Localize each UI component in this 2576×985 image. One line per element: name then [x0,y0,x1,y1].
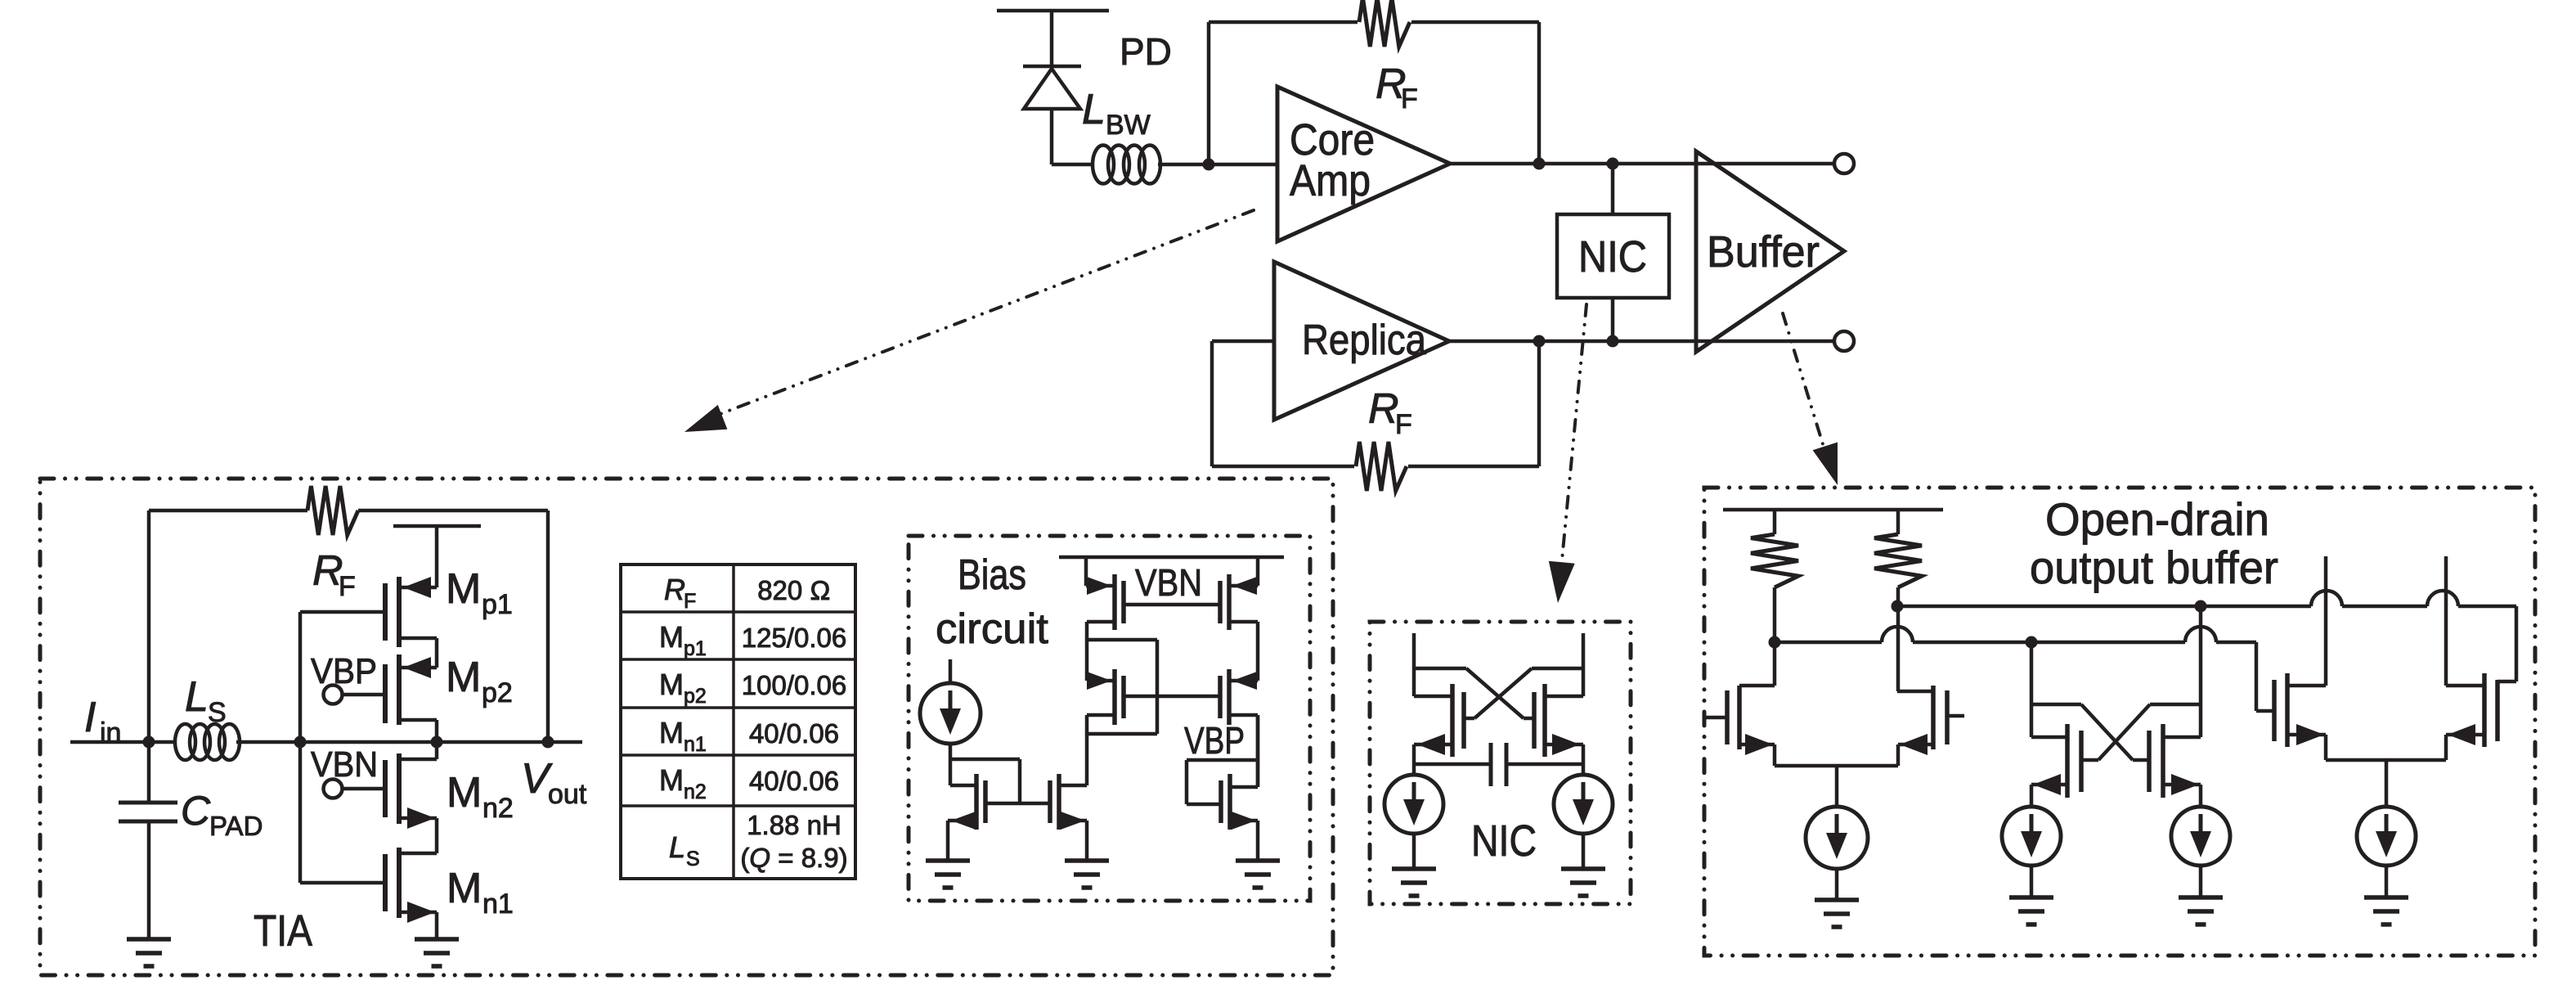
wire bias diode link vertical [1018,759,1022,803]
wire buffer bus2 segment b [1913,641,2016,645]
ground bias M6 [1236,858,1280,863]
svg-text:output buffer: output buffer [2030,542,2278,593]
NIC cross top left [1414,667,1466,671]
wire core amp output [1450,162,1834,166]
wire buffer bus2 segment a [1775,641,1882,645]
transistor bias TR [1227,574,1232,630]
photodiode PD anode triangle [1024,69,1080,109]
wire input node to cap [147,742,151,803]
wire TIA feedback top right [358,509,548,513]
svg-text:VBP: VBP [1184,719,1245,762]
wire replica feedback left vertical [1210,341,1214,466]
wire TIA gate bus vertical [298,612,303,883]
svg-text:M: M [446,565,481,613]
svg-text:L: L [185,673,209,721]
node buffer bus1 stage2 dot [2195,600,2207,613]
node TIA drain junction dot [431,736,443,749]
svg-text:M: M [659,668,684,701]
NIC left drain stub [1412,633,1416,696]
transistor bias M6 source lead [1230,819,1258,823]
photodiode PD anode lead [1050,109,1054,164]
wire buffer bus2 segment c [2016,641,2185,645]
current source bias [920,683,981,744]
wire buffer bus1 segment c [2458,605,2516,609]
svg-text:BW: BW [1106,110,1151,141]
NIC right source vertical [1582,744,1586,775]
svg-text:p2: p2 [482,677,513,708]
wire bias top gate link [1124,603,1220,607]
wire bias TL drain bend [1087,620,1115,624]
resistor R_F TIA [307,486,358,535]
transistor bias MR [1227,669,1232,725]
photodiode PD supply bar [997,9,1109,13]
svg-text:S: S [686,848,700,870]
NIC left source vertical [1412,744,1416,775]
wire replica feedback right vertical [1537,341,1542,466]
svg-text:M: M [659,763,684,797]
transistor bias M2 [1057,774,1061,830]
transistor Mn2 [397,753,402,824]
wire replica feedback bottom left [1212,465,1354,469]
transistor bias ML [1112,669,1117,725]
wire buffer bus2 drop to stage3 left gate [2255,642,2259,711]
wire diode to inductor [1052,163,1094,167]
callout arrow to TIA detail [707,210,1254,419]
svg-text:M: M [659,716,684,749]
wire NIC lower stub [1611,298,1615,341]
wire feedback left vertical [1207,22,1211,164]
svg-text:M: M [659,620,684,654]
svg-text:40/0.06: 40/0.06 [749,718,839,749]
photodiode PD cathode bar [1023,65,1081,69]
NIC dashed box [1370,622,1631,904]
transistor buffer S2 left source [2031,783,2067,787]
svg-text:PAD: PAD [209,811,263,841]
bias circuit dashed box [909,536,1310,901]
wire cap to ground [147,821,151,939]
ground buffer S1 [1815,897,1859,902]
wire buffer S2 left CS ground [2030,866,2034,897]
transistor buffer S1 left source [1739,743,1775,747]
svg-text:VBP: VBP [311,651,377,691]
svg-text:Bias: Bias [958,551,1026,599]
transistor NIC right [1542,684,1547,757]
wire buffer bus1 segment b [2342,605,2427,609]
capacitor NIC plates [1489,743,1493,786]
node buffer wire1 dot [1892,600,1904,613]
svg-text:M: M [447,865,482,912]
wire NIC right CS to ground [1582,834,1586,869]
wire buffer S1 CS ground [1835,869,1839,900]
svg-text:p1: p1 [684,637,707,660]
inductor L_S [175,724,195,760]
transistor bias TL source stub [1084,557,1088,586]
svg-text:n1: n1 [482,888,514,920]
TIA dashed box [40,479,1333,975]
svg-text:(Q = 8.9): (Q = 8.9) [740,843,847,873]
callout arrow to NIC detail [1561,304,1586,569]
transistor buffer S3 left source [2287,733,2326,737]
node buffer bus2 stage2 dot [2026,636,2038,649]
wire TIA input to gate node [236,740,582,744]
svg-text:NIC: NIC [1471,816,1537,866]
svg-text:125/0.06: 125/0.06 [742,623,846,653]
rail buffer VDD bar [1723,508,1943,512]
wire TIA feedback top left [149,509,307,513]
rail TIA VDD bar [393,524,481,528]
ground NIC left [1392,866,1436,871]
svg-text:Amp: Amp [1290,156,1371,205]
NIC cross top right [1532,667,1583,671]
transistor Mp1 [397,577,402,647]
transistor bias M2 source lead [1059,819,1087,823]
svg-text:TIA: TIA [254,906,312,956]
transistor bias M6 diode loop [1187,758,1258,762]
rail bias VDD bar [1059,555,1284,560]
transistor bias MR drain lead [1229,713,1258,717]
capacitor C_PAD bottom plate [119,820,177,824]
wire buffer bus2 segment d [2216,641,2256,645]
node input junction dot [1203,159,1215,171]
current source buffer S2 left [2002,807,2061,866]
op-amp Core Amp triangle [1277,87,1450,241]
svg-text:C: C [181,788,211,834]
transistor Mn2 drain lead [399,758,437,762]
ground buffer S2 right [2179,895,2223,900]
capacitor C_PAD top plate [119,801,177,805]
svg-text:n1: n1 [684,733,707,756]
node buffer wire2 dot [1769,636,1781,649]
NIC left drain lead [1414,695,1452,699]
svg-text:S: S [208,697,227,728]
wire feedback top horizontal right [1411,20,1539,25]
wire buffer S2 diagonal right-left [2098,704,2150,760]
svg-text:p2: p2 [684,685,707,708]
svg-text:F: F [1401,83,1418,115]
wire buffer bus2 hop over stage1 right drain [1882,627,1913,642]
wire buffer bus1 hop over stage3 right drain [2427,591,2458,606]
svg-text:circuit: circuit [936,605,1049,653]
svg-text:out: out [548,779,587,810]
wire buffer S2 diagonal left-right [2081,704,2133,760]
svg-text:F: F [339,571,356,602]
svg-text:n2: n2 [684,780,707,803]
transistor buffer S3 left [2285,673,2290,747]
transistor Mn2 source vertical [435,818,439,853]
wire bias mid gate link [1124,695,1220,699]
NIC cross diagonal left-to-right [1466,668,1524,718]
transistor Mp2 drain lead [399,718,437,722]
table column divider [732,564,735,879]
wire replica input horizontal [1212,340,1274,344]
svg-text:M: M [447,769,482,816]
transistor buffer S2 right [2161,724,2165,798]
capacitor NIC right wire [1506,762,1583,767]
photodiode PD cathode lead [1050,11,1054,66]
transistor bias M6 [1227,774,1232,830]
transistor Mn1 [397,848,402,918]
terminal output minus [1834,331,1854,351]
transistor buffer S1 right [1931,686,1936,749]
op-amp Buffer triangle [1696,151,1844,352]
node replica output dot [1533,335,1546,348]
wire TIA feedback left vertical [147,510,151,742]
wire TIA input left [70,740,176,744]
node replica NIC dot [1607,335,1619,348]
transistor Mp1 drain lead [399,636,437,641]
open-drain buffer dashed box [1704,488,2535,956]
resistor buffer right [1896,510,1901,534]
table parameter box [621,564,855,879]
ground bias M1 [926,858,970,863]
svg-text:I: I [84,694,96,741]
svg-text:M: M [446,654,481,701]
ground buffer S3 [2364,895,2408,900]
svg-text:F: F [684,590,696,613]
svg-text:R: R [664,573,685,606]
inductor L_BW [1093,146,1114,184]
NIC right drain stub [1582,633,1586,696]
wire buffer S3 left drain stub [2324,556,2328,686]
wire buffer S1 tail [1775,764,1898,768]
svg-text:n2: n2 [482,793,514,824]
resistor R_F core feedback [1359,0,1410,47]
terminal output plus [1834,154,1854,173]
wire feedback right vertical [1537,22,1542,164]
wire NIC left CS to ground [1412,834,1416,869]
transistor buffer S2 left [2065,724,2070,798]
wire buffer bus1 hop over stage3 left drain [2311,591,2342,606]
wire replica output [1449,340,1834,344]
transistor bias M6 drain vertical [1256,715,1260,787]
table row lines [621,610,855,614]
ground bias M2 [1065,858,1109,863]
wire Mp1 source stub [435,526,439,587]
node TIA Vout dot [542,736,554,749]
svg-text:L: L [669,830,685,864]
ground TIA input [127,937,171,942]
transistor buffer S3 right source [2446,733,2484,737]
wire buffer S2 right drain vertical [2199,606,2203,737]
transistor NIC left [1450,684,1455,757]
current source NIC right [1554,775,1613,834]
wire TIA feedback right vertical [546,510,550,742]
svg-text:L: L [1082,86,1106,133]
transistor bias M1 source down [946,821,950,861]
svg-text:VBN: VBN [1135,561,1202,604]
capacitor NIC left wire [1414,762,1491,767]
wire buffer S3 CS ground [2385,866,2389,897]
svg-text:p1: p1 [482,589,513,620]
svg-text:Replica: Replica [1302,317,1426,364]
callout arrow to buffer detail [1783,313,1826,455]
transistor bias M1 drain lead [950,784,976,788]
transistor buffer S3 right [2482,673,2487,747]
svg-text:Buffer: Buffer [1707,227,1820,277]
wire buffer S3 right drain stub [2444,556,2448,686]
transistor bias M1 [974,774,979,830]
transistor bias ML drain lead [1087,713,1115,717]
NIC right drain lead [1545,695,1583,699]
current source buffer S1 [1806,807,1868,869]
ground buffer S2 left [2009,895,2053,900]
wire bias cross link [1087,732,1157,736]
block NIC box [1557,214,1669,298]
current source buffer S2 right [2171,807,2230,866]
op-amp Replica triangle [1274,262,1449,420]
svg-text:820 Ω: 820 Ω [757,575,831,605]
wire bias tap vertical [1156,640,1160,734]
wire bias M1 M2 gate link [985,802,1050,806]
transistor Mn1 source lead [399,911,437,915]
wire inductor to core amp input node [1158,163,1277,167]
svg-text:40/0.06: 40/0.06 [749,766,839,796]
svg-text:NIC: NIC [1578,232,1647,281]
transistor buffer S1 right source [1898,743,1933,747]
wire buffer bus1 drop to stage3 right gate [2515,606,2519,681]
svg-text:PD: PD [1120,30,1172,73]
wire buffer S3 tail [2326,758,2446,762]
wire NIC upper stub [1611,164,1615,214]
node TIA input pad dot [143,736,155,749]
wire replica feedback bottom right [1408,465,1539,469]
wire buffer S2 cross left tap [2031,703,2081,707]
node core output NIC dot [1607,158,1619,170]
wire bias diode link top [949,758,1020,762]
transistor bias TL [1112,574,1117,630]
wire buffer bus2 hop over stage2 right drain [2185,627,2216,642]
wire buffer S2 cross right tap [2150,703,2201,707]
ground TIA output branch [415,937,459,942]
wire bias drain tap horizontal [1087,638,1157,642]
svg-text:1.88 nH: 1.88 nH [747,810,841,840]
terminal VBP TIA [324,686,343,704]
resistor R_F replica feedback [1356,442,1407,491]
wire buffer bus1 segment a [1897,605,2311,609]
transistor buffer S1 left [1737,686,1742,749]
wire buffer S2 left drain vertical [2030,642,2034,737]
NIC cross diagonal right-to-left [1474,668,1532,718]
svg-text:R: R [1368,385,1399,433]
current source bias stub [949,659,953,684]
terminal VBN TIA [324,780,343,798]
wire feedback top horizontal left [1209,20,1358,25]
transistor bias TR source stub [1256,557,1260,586]
svg-text:100/0.06: 100/0.06 [742,670,846,700]
ground NIC right [1561,866,1605,871]
current source buffer S3 [2357,807,2416,866]
transistor bias TR drain bend [1229,620,1258,624]
wire buffer S2 right CS ground [2199,866,2203,897]
current source NIC left [1384,775,1443,834]
svg-text:F: F [1395,409,1412,440]
node TIA gate bus dot [294,736,307,749]
resistor buffer left [1773,510,1777,534]
svg-text:Open-drain: Open-drain [2045,493,2269,545]
svg-text:in: in [100,717,121,749]
wire bias CS to M1 [949,743,953,785]
transistor buffer S2 right source [2163,783,2201,787]
svg-text:VBN: VBN [311,744,378,785]
node core output feedback dot [1533,158,1546,170]
transistor Mp2 [397,654,402,725]
